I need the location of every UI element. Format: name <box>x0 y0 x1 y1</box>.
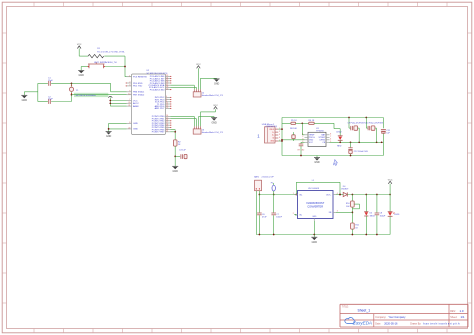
svg-text:7: 7 <box>330 136 331 138</box>
svg-text:19: 19 <box>166 88 168 90</box>
svg-text:PC6 RESETB: PC6 RESETB <box>133 77 147 79</box>
svg-text:Drawn By:: Drawn By: <box>410 323 421 326</box>
svg-text:9: 9 <box>129 91 130 93</box>
svg-text:6: 6 <box>330 139 331 141</box>
svg-text:VCC: VCC <box>196 64 201 66</box>
svg-text:R8 10K: R8 10K <box>290 128 298 130</box>
svg-text:RED: RED <box>337 145 342 147</box>
svg-text:2.54mm-1*2P: 2.54mm-1*2P <box>262 177 275 179</box>
svg-text:GND: GND <box>214 83 220 86</box>
svg-text:VCC: VCC <box>133 100 138 102</box>
svg-text:2: 2 <box>293 213 294 215</box>
svg-text:15pF: 15pF <box>48 99 53 101</box>
svg-text:Company:: Company: <box>375 316 386 319</box>
svg-text:XL6009 BOOST: XL6009 BOOST <box>306 202 325 205</box>
svg-text:8: 8 <box>330 134 331 136</box>
svg-text:IN-: IN- <box>299 214 302 216</box>
svg-text:LED1: LED1 <box>395 214 401 216</box>
svg-text:GND: GND <box>312 241 318 244</box>
svg-text:4: 4 <box>279 137 280 139</box>
svg-text:PC6 ADC6 IN0: PC6 ADC6 IN0 <box>150 88 165 91</box>
svg-text:Sheet_1: Sheet_1 <box>358 309 371 313</box>
svg-text:EasyEDA: EasyEDA <box>353 321 372 326</box>
svg-text:47uF: 47uF <box>262 217 267 219</box>
svg-text:D+: D+ <box>272 135 274 137</box>
svg-text:21: 21 <box>128 105 130 107</box>
svg-text:1.0: 1.0 <box>460 309 464 313</box>
svg-text:1/1: 1/1 <box>461 315 465 319</box>
svg-text:1: 1 <box>293 193 294 195</box>
svg-text:PB7 XTAL2: PB7 XTAL2 <box>133 94 145 97</box>
svg-text:2: 2 <box>302 136 303 138</box>
svg-text:RC1/16W-271OMLJTML: RC1/16W-271OMLJTML <box>97 51 125 53</box>
svg-text:AREF: AREF <box>133 105 139 108</box>
svg-text:PD1 TXD: PD1 TXD <box>133 86 143 88</box>
svg-text:7: 7 <box>129 99 130 101</box>
svg-text:VCC: VCC <box>309 142 314 144</box>
svg-text:PCINT7 PB7: PCINT7 PB7 <box>152 132 165 134</box>
svg-text:KEY1 SKRPACE010_TH: KEY1 SKRPACE010_TH <box>94 61 117 64</box>
svg-text:2020-05-16: 2020-05-16 <box>384 322 398 326</box>
svg-text:HC-49US 8.000MHz: HC-49US 8.000MHz <box>76 95 96 97</box>
svg-text:VCC: VCC <box>213 105 218 107</box>
svg-text:20: 20 <box>128 102 130 104</box>
svg-text:3: 3 <box>302 139 303 141</box>
svg-text:GND: GND <box>133 123 138 125</box>
svg-text:GND: GND <box>211 121 217 124</box>
svg-text:2: 2 <box>129 82 130 84</box>
svg-text:15pF: 15pF <box>48 80 53 82</box>
svg-text:Header-Male-2.54_1*4: Header-Male-2.54_1*4 <box>202 94 224 97</box>
svg-text:REV:: REV: <box>450 310 456 313</box>
svg-text:C10 Polar-47uF/16V: C10 Polar-47uF/16V <box>365 122 384 124</box>
svg-text:21: 21 <box>166 131 168 133</box>
svg-text:PD0 RXD: PD0 RXD <box>133 83 143 85</box>
svg-text:GND: GND <box>173 170 179 173</box>
svg-text:GND: GND <box>106 135 112 138</box>
svg-text:4: 4 <box>302 141 303 143</box>
svg-text:1N5819: 1N5819 <box>341 189 349 191</box>
svg-text:CONVERTER: CONVERTER <box>307 205 323 208</box>
svg-text:100uF: 100uF <box>380 215 386 217</box>
svg-text:Sheet:: Sheet: <box>450 316 457 319</box>
svg-text:3: 3 <box>129 85 130 87</box>
svg-text:LED2: LED2 <box>336 132 342 134</box>
svg-text:VCC: VCC <box>77 44 82 46</box>
svg-text:8: 8 <box>129 122 130 124</box>
svg-text:AVCC: AVCC <box>133 102 139 105</box>
svg-text:1: 1 <box>129 75 130 77</box>
svg-text:TITLE:: TITLE: <box>342 307 349 309</box>
svg-text:STM32F030F4P6: STM32F030F4P6 <box>147 73 169 75</box>
svg-text:GND: GND <box>133 129 138 131</box>
svg-text:R6 1K: R6 1K <box>309 120 315 122</box>
svg-text:VCC: VCC <box>388 179 393 181</box>
svg-text:3: 3 <box>279 134 280 136</box>
svg-text:13: 13 <box>166 107 168 109</box>
svg-text:VBUS: VBUS <box>269 129 275 131</box>
svg-text:R5 1K: R5 1K <box>291 120 297 122</box>
svg-text:C3 1uF: C3 1uF <box>179 149 187 151</box>
svg-text:GND: GND <box>314 161 320 164</box>
svg-text:AIN1 PD7: AIN1 PD7 <box>155 107 166 110</box>
svg-text:2: 2 <box>279 131 280 133</box>
svg-text:100nF: 100nF <box>276 217 282 219</box>
svg-text:Your Company: Your Company <box>388 315 406 319</box>
svg-text:R7 1K2: R7 1K2 <box>298 150 306 152</box>
svg-text:SS34: SS34 <box>370 215 376 217</box>
svg-text:C9 Polar-47uF/16V: C9 Polar-47uF/16V <box>348 122 366 124</box>
svg-text:PB6 XTAL1: PB6 XTAL1 <box>133 91 145 94</box>
svg-text:1: 1 <box>302 134 303 136</box>
svg-text:22: 22 <box>128 128 130 130</box>
svg-text:C12 100nF 50V: C12 100nF 50V <box>354 151 369 153</box>
svg-text:GND: GND <box>79 74 85 77</box>
svg-text:OUT+: OUT+ <box>326 194 332 196</box>
svg-text:Date:: Date: <box>375 323 381 326</box>
svg-text:10: 10 <box>128 93 130 95</box>
svg-text:GND: GND <box>312 216 317 218</box>
svg-text:GND: GND <box>22 99 28 102</box>
svg-text:TP4056: TP4056 <box>316 130 324 132</box>
svg-text:Header-Male-2.54_1*4: Header-Male-2.54_1*4 <box>202 131 224 134</box>
svg-text:hanteshinanberipith: hanteshinanberipith <box>423 322 460 326</box>
svg-text:U5 XL6009: U5 XL6009 <box>308 188 320 190</box>
svg-text:GND: GND <box>270 141 275 143</box>
